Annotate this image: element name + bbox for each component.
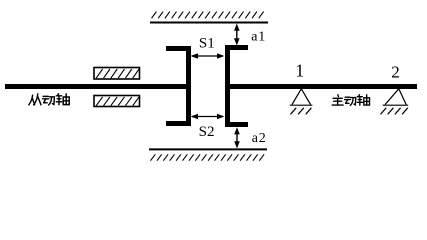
svg-text:2: 2 [391,62,400,81]
bearing support 2 (pin symbol) [381,89,409,115]
label 从动轴 (driven shaft), hand-drawn glyphs [29,94,69,105]
svg-text:S2: S2 [199,124,215,140]
glyph 主 [332,95,343,105]
left coupling flange [166,46,191,126]
glyph 动 [43,96,55,105]
bearing block lower (hatched) [94,96,140,107]
dimension S1 arrow [191,53,225,59]
svg-text:1: 1 [295,61,304,81]
svg-text:a2: a2 [252,131,267,146]
bearing support 1 (pin symbol) [290,89,313,115]
top wall line [150,22,268,24]
label 主动轴 (driving shaft), hand-drawn glyphs [332,95,369,106]
bottom wall line [149,148,267,150]
bottom wall hatching [151,154,265,160]
dimension S2 arrow [191,114,225,120]
glyph 动 [345,97,356,105]
driven shaft (left shaft line) [5,84,190,89]
dimension a1 arrow [234,24,240,46]
right coupling flange [225,45,248,127]
bearing block upper (hatched) [94,68,140,80]
glyph 轴 [357,95,369,105]
glyph 从 [29,94,41,105]
svg-text:S1: S1 [199,36,215,52]
dimension a2 arrow [234,127,240,148]
top wall hatching [152,12,264,19]
driving shaft (right shaft line) [225,84,417,89]
glyph 轴 [56,94,69,105]
svg-text:a1: a1 [251,30,266,45]
